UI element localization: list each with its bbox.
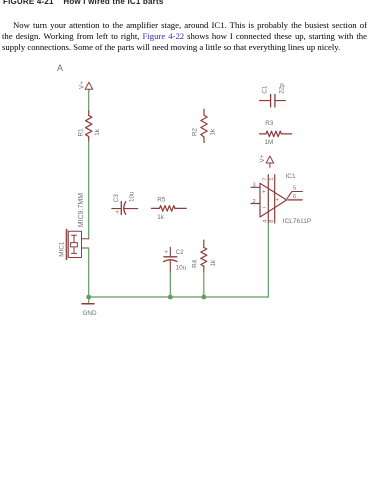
capacitor C1 (260, 94, 286, 107)
svg-text:1M: 1M (265, 139, 274, 146)
wire MIC1 to ground rail (88, 248, 90, 297)
svg-text:V+: V+ (259, 154, 266, 162)
junction at R4 (201, 295, 206, 300)
svg-text:C1: C1 (261, 85, 268, 94)
svg-text:10u: 10u (176, 265, 187, 272)
ground (82, 297, 94, 304)
svg-text:1: 1 (269, 178, 275, 181)
capacitor C2 (164, 247, 177, 272)
svg-text:22p: 22p (279, 83, 286, 94)
svg-text:R1: R1 (77, 128, 84, 137)
svg-text:V+: V+ (78, 81, 85, 89)
svg-text:R5: R5 (157, 196, 166, 203)
svg-text:R4: R4 (191, 259, 198, 268)
capacitor C3 (112, 202, 138, 215)
wire R1 to MIC1 (88, 142, 90, 239)
svg-text:A: A (57, 63, 63, 73)
resistor R4 (201, 240, 207, 272)
svg-text:6: 6 (293, 194, 296, 200)
resistor R1 (86, 111, 92, 142)
svg-text:ICL7611P: ICL7611P (283, 218, 311, 225)
wire ground rail (89, 296, 269, 298)
svg-text:−: − (262, 205, 266, 212)
junction at C2 (168, 295, 173, 300)
power V+ symbol (above R1) (85, 82, 93, 91)
svg-text:2: 2 (253, 199, 256, 205)
svg-text:GND: GND (83, 310, 97, 317)
svg-text:1k: 1k (157, 214, 165, 221)
svg-text:MIC9.7MM: MIC9.7MM (78, 193, 85, 227)
svg-text:3: 3 (253, 183, 256, 189)
svg-text:MIC1: MIC1 (58, 241, 65, 257)
microphone MIC1 (67, 230, 89, 260)
svg-text:R3: R3 (265, 120, 274, 127)
wire R4 to ground rail (203, 272, 205, 297)
svg-text:8: 8 (269, 219, 275, 222)
svg-text:C2: C2 (176, 249, 185, 256)
resistor R3 (260, 131, 292, 137)
svg-text:1k: 1k (210, 128, 217, 136)
wire V+ to R1 (88, 92, 90, 111)
svg-text:7: 7 (262, 178, 268, 181)
power V+ symbol (above IC1) (266, 156, 274, 167)
svg-text:C3: C3 (113, 194, 120, 203)
svg-text:5: 5 (293, 185, 296, 191)
svg-text:+: + (262, 189, 266, 196)
svg-text:10u: 10u (129, 191, 136, 202)
wire IC1 pin4 to ground rail (267, 224, 269, 297)
svg-text:4: 4 (262, 219, 268, 223)
svg-text:+: + (164, 249, 168, 256)
op-amp IC1 (251, 175, 302, 223)
wire C2 to ground rail (169, 272, 171, 297)
svg-text:+: + (275, 197, 279, 204)
svg-text:1k: 1k (210, 259, 217, 267)
junction at GND (86, 295, 91, 300)
svg-text:1k: 1k (94, 128, 101, 136)
svg-text:R2: R2 (191, 127, 198, 136)
resistor R2 (201, 109, 207, 142)
svg-text:IC1: IC1 (286, 173, 297, 180)
svg-text:+: + (115, 209, 119, 216)
resistor R5 (152, 206, 187, 212)
